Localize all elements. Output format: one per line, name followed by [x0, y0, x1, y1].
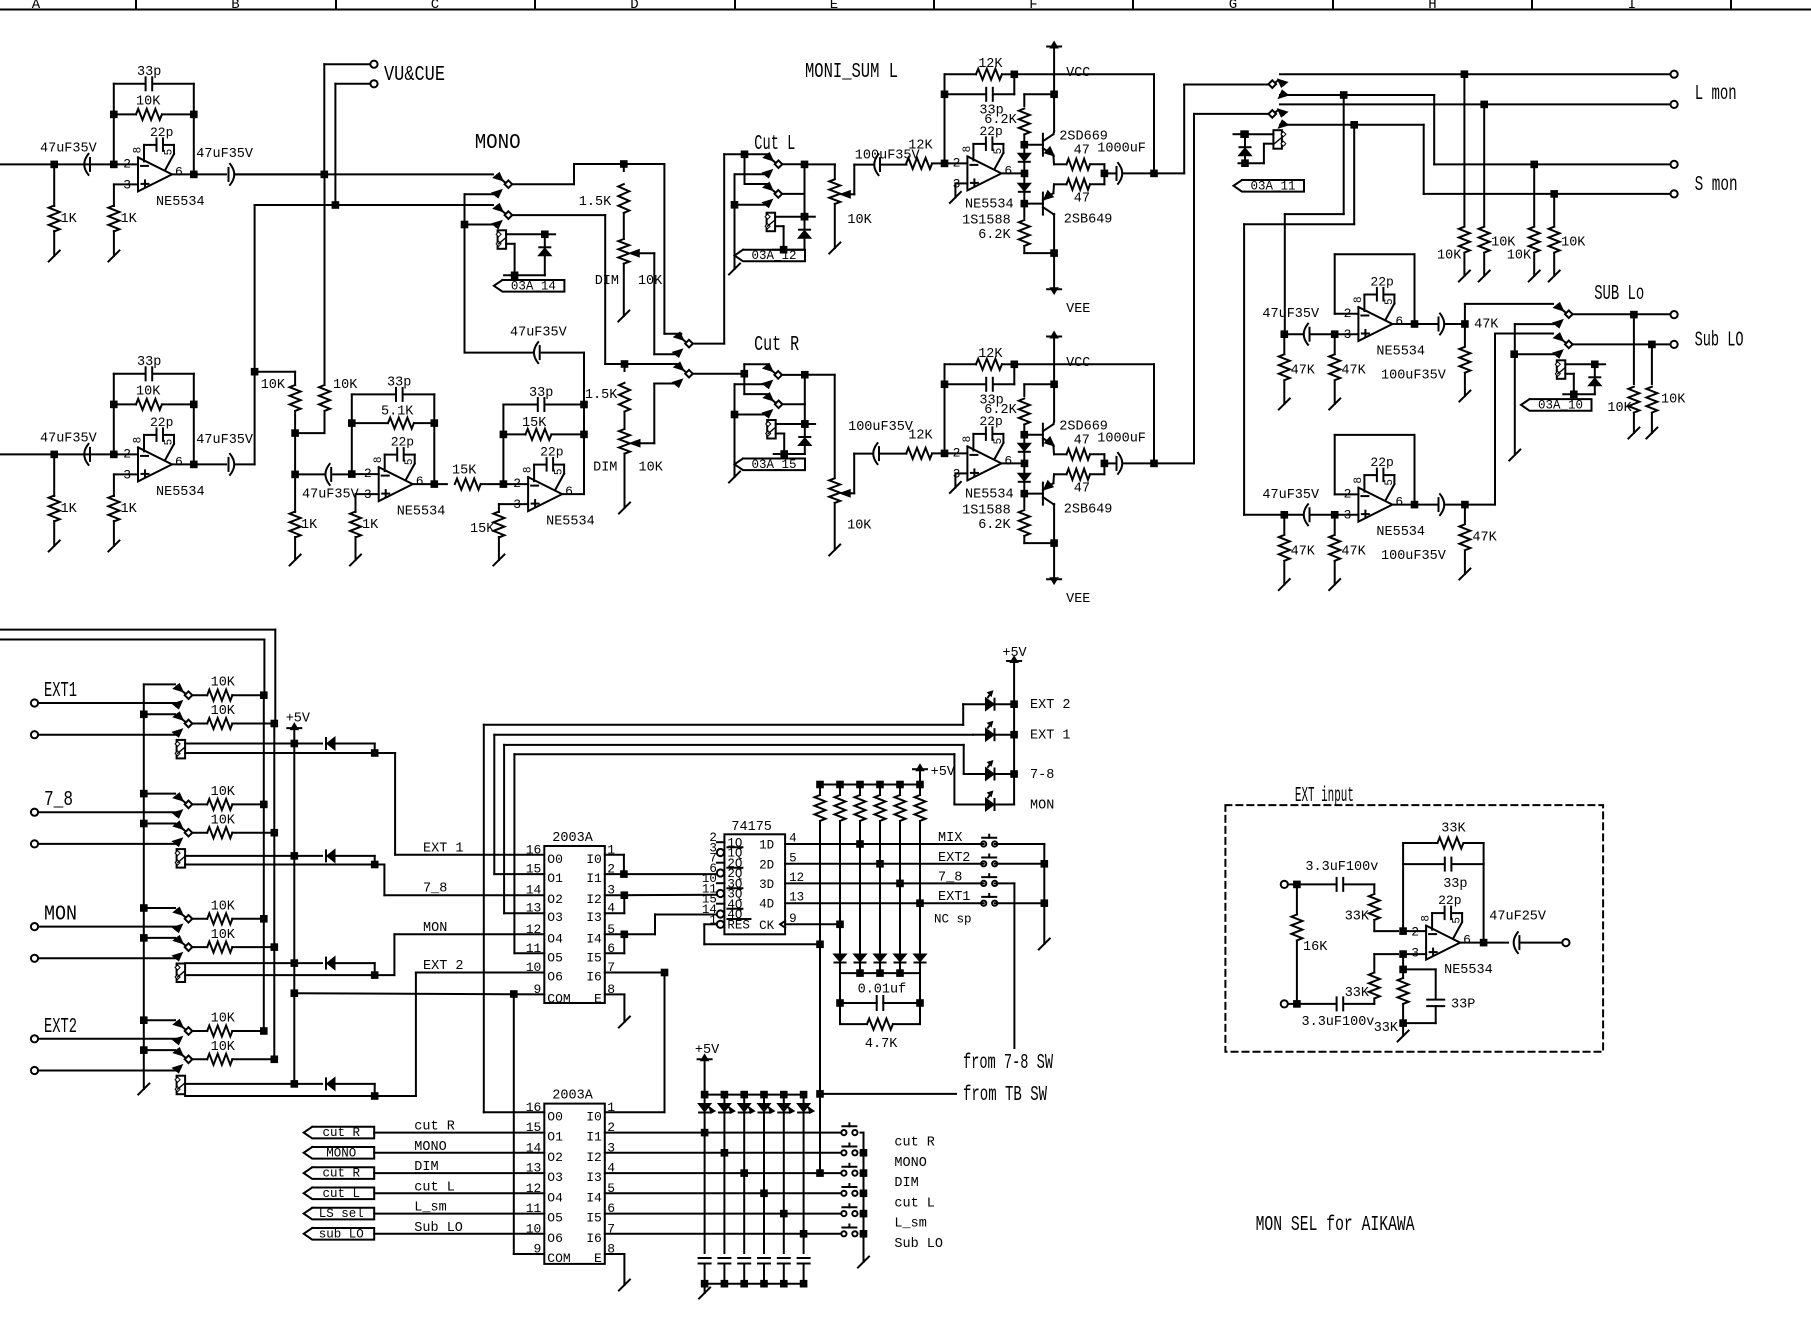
wire relay pin1 — [775, 216, 804, 218]
junction VCC — [1051, 382, 1057, 388]
wire +5V to EXT2 diode — [293, 993, 295, 1084]
wire feedback — [944, 74, 946, 163]
svg-text:0.01uf: 0.01uf — [858, 983, 907, 998]
wire 2D EXT2 — [785, 863, 984, 865]
svg-text:4.7K: 4.7K — [865, 1037, 898, 1052]
junction VEE — [1051, 540, 1057, 546]
junction bias top — [1022, 432, 1028, 438]
svg-text:cut L: cut L — [322, 1187, 360, 1201]
svg-text:10K: 10K — [1661, 392, 1686, 407]
wire feedback — [944, 364, 946, 453]
svg-text:O0: O0 — [547, 852, 563, 867]
svg-text:6: 6 — [565, 484, 573, 499]
junction — [1332, 512, 1338, 518]
junction VCC — [1051, 92, 1057, 98]
svg-text:MON: MON — [44, 904, 77, 927]
wire cut R outputs — [782, 374, 805, 376]
resistor 16K — [1296, 884, 1298, 914]
wire gnd bus stairs — [141, 905, 147, 911]
ground — [49, 541, 60, 552]
wire 3D 7-8 — [785, 882, 984, 884]
junction W1 tap — [1341, 92, 1347, 98]
diode flyback 7_8 — [294, 855, 322, 857]
op-amp SUB 2 NE5534 — [1358, 488, 1392, 522]
junction bias bottom — [1022, 491, 1028, 497]
junction rail — [781, 1092, 787, 1098]
svg-text:47K: 47K — [1341, 544, 1366, 559]
wire S mon t2 — [1280, 124, 1424, 126]
junction fb — [1412, 321, 1418, 327]
junction mono t2 — [462, 222, 468, 228]
LED — [723, 1095, 725, 1104]
wire relay rail — [1563, 393, 1595, 395]
svg-text:6.2K: 6.2K — [978, 518, 1011, 533]
junction — [1551, 191, 1557, 197]
transistor Q 2SD669 — [1042, 134, 1044, 156]
svg-text:RES: RES — [727, 919, 750, 933]
wire relay pin1 +5V — [185, 962, 294, 964]
svg-text:I: I — [1628, 0, 1636, 13]
wire S mon feed — [1194, 113, 1269, 115]
svg-text:10K: 10K — [1437, 249, 1462, 264]
wire cut R lower t1 — [743, 374, 745, 394]
svg-text:Sub LO: Sub LO — [1695, 330, 1744, 353]
diode 03A_10 — [1594, 364, 1596, 376]
switch MONO L — [494, 174, 502, 181]
junction — [722, 1281, 728, 1287]
op-amp EXT NE5534 — [1426, 926, 1460, 960]
wire matrix row — [605, 1132, 841, 1134]
wire to upper throw — [745, 153, 769, 155]
svg-text:L_sm: L_sm — [414, 1201, 446, 1216]
resistor 33K lower — [1373, 1000, 1375, 1004]
junction matrix — [801, 1231, 807, 1237]
junction — [622, 892, 628, 898]
clock wedge — [780, 921, 785, 928]
resistor 10K A — [290, 385, 301, 411]
resistor 15K op-amp5 pin3 — [493, 512, 504, 538]
wire flag — [374, 1192, 544, 1194]
resistor 1.5K R — [624, 364, 626, 371]
capacitor 47uF35V SUB 2 — [1284, 514, 1302, 516]
junction — [857, 970, 863, 976]
svg-text:6.2K: 6.2K — [984, 113, 1017, 128]
junction out — [1462, 502, 1468, 508]
wire summing node — [294, 433, 296, 474]
diode flyback EXT2 — [294, 1083, 322, 1085]
flag MONO — [304, 1147, 375, 1159]
relay 03A_10 — [1557, 360, 1566, 379]
potentiometer 10K cut R — [829, 478, 840, 503]
wire SUB2 out riser — [1465, 504, 1495, 506]
wire diode rail — [840, 972, 920, 974]
svg-text:2SB649: 2SB649 — [1064, 213, 1113, 228]
wire relay pin2 — [1565, 373, 1574, 375]
wire pin3 gnd — [955, 182, 967, 184]
pushbutton cut R — [841, 1130, 846, 1135]
svg-text:47uF35V: 47uF35V — [196, 433, 254, 448]
svg-text:O0: O0 — [547, 1109, 563, 1124]
ground — [1479, 271, 1490, 282]
wire op-amp5 feedback — [502, 405, 504, 485]
wire mono signal riser — [464, 225, 466, 353]
svg-text:10K: 10K — [211, 1040, 236, 1055]
junction rail — [741, 1092, 747, 1098]
svg-text:47K: 47K — [1291, 364, 1316, 379]
junction rail — [897, 782, 903, 788]
svg-text:12: 12 — [526, 922, 542, 937]
svg-text:1.5K: 1.5K — [585, 388, 618, 403]
resistor 1K summing — [294, 474, 296, 512]
power +5V EXT — [287, 727, 301, 729]
svg-text:3: 3 — [1344, 508, 1352, 523]
capacitor 100uF35V SUB 1 — [1438, 318, 1440, 331]
junction matrix — [741, 1170, 747, 1176]
switch Cut L upper — [764, 154, 772, 161]
svg-text:03A_12: 03A_12 — [751, 249, 796, 263]
wire relay rail — [773, 249, 804, 251]
svg-text:MON: MON — [1030, 799, 1054, 814]
ground — [1279, 579, 1290, 590]
wire Q2 emitter to 47R — [1052, 184, 1055, 193]
resistor 6.2K upper — [1019, 109, 1030, 135]
junction fb out — [1151, 171, 1157, 177]
svg-text:6: 6 — [416, 474, 424, 489]
terminal MON b — [31, 955, 38, 962]
wire mono L throw2 — [465, 193, 494, 195]
svg-text:47K: 47K — [1341, 364, 1366, 379]
svg-text:22p: 22p — [540, 445, 563, 460]
junction pin2 — [942, 161, 948, 167]
LED — [704, 1095, 706, 1104]
wire relay pin1 — [1565, 363, 1595, 365]
relay 03A_12 — [767, 213, 776, 232]
svg-text:Sub LO: Sub LO — [894, 1237, 943, 1252]
wire pot wiper — [850, 193, 855, 195]
svg-text:MONO: MONO — [894, 1156, 926, 1171]
svg-text:1K: 1K — [121, 212, 138, 227]
junction rail — [761, 1092, 767, 1098]
wire L mon feed — [1184, 84, 1268, 86]
wire cut L lower t1 — [744, 154, 746, 184]
svg-text:6: 6 — [175, 454, 183, 469]
diode 1S1588 upper — [1023, 145, 1025, 153]
switch Cut L lower — [764, 183, 772, 190]
resistor 1K pin3 — [108, 206, 119, 232]
svg-text:10K: 10K — [639, 461, 664, 476]
capacitor 100uF35V L — [874, 154, 878, 175]
svg-text:E: E — [594, 1251, 602, 1266]
wire flag — [374, 1172, 544, 1174]
pushbutton EXT2 — [981, 861, 986, 866]
ground — [619, 1280, 630, 1291]
wire opamp out — [1001, 462, 1024, 464]
svg-text:+5V: +5V — [695, 1043, 720, 1058]
ground — [1509, 450, 1520, 461]
svg-text:I2: I2 — [586, 1150, 602, 1165]
junction — [501, 432, 507, 438]
svg-text:DIM: DIM — [894, 1176, 918, 1191]
svg-text:47uF35V: 47uF35V — [40, 431, 98, 446]
junction — [801, 1281, 807, 1287]
svg-text:1K: 1K — [61, 502, 78, 517]
pushbutton DIM — [841, 1171, 846, 1176]
wire op-amp4 out — [413, 483, 447, 485]
svg-text:VU&CUE: VU&CUE — [384, 64, 445, 87]
wire gnd bus stairs — [141, 1017, 147, 1023]
LED 7-8 — [964, 773, 985, 775]
svg-text:100uF35V: 100uF35V — [1381, 549, 1447, 564]
wire I4-I5 link — [605, 933, 625, 935]
diode 03A_12 — [804, 217, 806, 229]
ground — [950, 482, 961, 493]
switch 7_8 2 — [174, 822, 182, 829]
ground — [493, 555, 504, 566]
svg-text:F: F — [1029, 0, 1037, 13]
junction bus L — [261, 1028, 267, 1034]
svg-text:O4: O4 — [547, 1190, 563, 1205]
wire relay pin1 — [776, 423, 805, 425]
terminal EXT1 b — [31, 731, 38, 738]
svg-text:VCC: VCC — [1066, 356, 1090, 371]
diode OR — [875, 955, 886, 962]
wire MONO R common out — [512, 214, 605, 216]
junction 03A_11 tap — [1241, 131, 1247, 137]
svg-text:SUB Lo: SUB Lo — [1594, 283, 1644, 306]
junction bus R — [272, 721, 278, 727]
wire I2 to 74175 3Q — [624, 894, 717, 897]
wire Q1 base — [1024, 144, 1043, 146]
svg-text:22p: 22p — [1370, 275, 1393, 290]
junction +5V — [292, 1081, 298, 1087]
svg-text:O6: O6 — [547, 970, 563, 985]
ground — [49, 251, 60, 262]
svg-text:10K: 10K — [638, 274, 663, 289]
wire relay pin2 — [185, 1095, 375, 1097]
svg-text:1D: 1D — [759, 839, 774, 853]
wire pull-up to row — [899, 821, 901, 883]
junction rail — [917, 782, 923, 788]
wire cut L feed — [724, 153, 744, 155]
svg-text:I3: I3 — [586, 910, 602, 925]
wire Q1 collector — [1052, 132, 1055, 135]
junction 33P — [1400, 967, 1406, 973]
wire feedback to output — [1014, 73, 1154, 75]
wire gnd bus stairs — [144, 683, 175, 685]
svg-text:47uF35V: 47uF35V — [1262, 488, 1320, 503]
junction — [741, 1281, 747, 1287]
wire button commons — [995, 843, 1045, 845]
wire cut L mute net — [735, 173, 766, 175]
junction bus R — [272, 1057, 278, 1063]
svg-text:I4: I4 — [586, 1190, 602, 1205]
wire flag — [374, 1152, 544, 1154]
svg-text:sub LO: sub LO — [319, 1227, 364, 1241]
svg-text:MON SEL for AIKAWA: MON SEL for AIKAWA — [1256, 1214, 1415, 1237]
svg-text:NE5534: NE5534 — [156, 195, 205, 210]
svg-text:MONO: MONO — [326, 1146, 356, 1160]
wire matrix row — [605, 1152, 841, 1154]
svg-text:cut R: cut R — [414, 1120, 455, 1135]
resistor 47K SUB1 b — [1334, 334, 1336, 354]
relay coil EXT1 — [177, 740, 186, 759]
flag 03A_12 — [735, 250, 806, 262]
svg-text:47K: 47K — [1472, 531, 1497, 546]
op-amp SUB 1 NE5534 — [1358, 307, 1392, 341]
svg-text:5: 5 — [164, 439, 176, 446]
junction TB DIM — [817, 1170, 823, 1176]
wire 2003A2 E to ground — [605, 1253, 625, 1255]
svg-text:cut R: cut R — [322, 1126, 360, 1140]
wire bank2 CK — [839, 821, 841, 924]
junction output — [191, 172, 197, 178]
junction bias bottom — [1022, 201, 1028, 207]
junction CK — [837, 922, 843, 928]
wire VU&CUE 1 — [323, 64, 325, 174]
svg-text:6: 6 — [1395, 314, 1403, 329]
ground — [1039, 939, 1050, 950]
flag 03A_15 — [735, 459, 806, 471]
junction cut L — [742, 152, 748, 158]
svg-text:10K: 10K — [211, 1012, 236, 1027]
svg-text:cut R: cut R — [322, 1167, 360, 1181]
svg-text:NE5534: NE5534 — [965, 488, 1014, 503]
ground — [138, 1084, 149, 1095]
wire pull-up to row — [919, 821, 921, 903]
switch 7_8 1 — [174, 794, 182, 801]
junction — [1462, 71, 1468, 77]
svg-text:22p: 22p — [150, 125, 173, 140]
wire to upper throw — [743, 364, 745, 373]
junction input 2 — [51, 452, 57, 458]
sheet border — [0, 9, 1811, 11]
svg-text:6.2K: 6.2K — [978, 228, 1011, 243]
flag 03A_11 — [1234, 180, 1305, 192]
wire relay rail — [504, 274, 545, 276]
svg-text:I5: I5 — [586, 1211, 602, 1226]
wire flag — [374, 1132, 544, 1134]
ground — [729, 472, 740, 483]
IC 2003A #2 — [544, 1104, 605, 1264]
wire VEE — [1053, 504, 1055, 579]
wire relay pin2 — [506, 243, 514, 245]
junction — [662, 970, 668, 976]
svg-text:47uF35V: 47uF35V — [196, 147, 254, 162]
wire loop3 to 2003A1 O3 — [503, 745, 505, 913]
svg-text:C: C — [431, 0, 439, 13]
terminal VU&CUE 1 — [370, 61, 377, 68]
svg-text:10K: 10K — [211, 928, 236, 943]
resistor 1K input bias — [53, 164, 55, 206]
svg-text:COM: COM — [547, 1251, 570, 1266]
wire MONI L out to right — [1154, 172, 1184, 174]
svg-text:NE5534: NE5534 — [1376, 525, 1425, 540]
svg-text:5: 5 — [993, 438, 1005, 445]
resistor 1K input bias — [53, 454, 55, 496]
junction bias top — [1022, 142, 1028, 148]
svg-text:47: 47 — [1074, 434, 1090, 449]
svg-text:I1: I1 — [586, 871, 602, 886]
junction — [292, 990, 298, 996]
wire relay pin2 — [185, 752, 375, 754]
wire Q2 collector — [1052, 213, 1055, 215]
svg-text:2: 2 — [123, 446, 131, 461]
wire cut L outputs — [782, 163, 804, 165]
resistor 1K pin3 — [108, 496, 119, 522]
power +5V LEDs — [1007, 660, 1021, 662]
svg-text:10K: 10K — [847, 213, 872, 228]
svg-text:47uF25V: 47uF25V — [1489, 910, 1547, 925]
junction — [877, 970, 883, 976]
svg-text:10K: 10K — [847, 519, 872, 534]
svg-text:I1: I1 — [586, 1130, 602, 1145]
wire relay pin1 +5V — [185, 855, 294, 857]
svg-text:B: B — [231, 0, 239, 13]
potentiometer 10K cut L — [829, 179, 840, 204]
LED MON — [954, 804, 984, 806]
wire EXT out — [1460, 942, 1508, 944]
svg-text:+5V: +5V — [286, 712, 311, 727]
capacitor 3.3uF100v upper — [1336, 878, 1338, 891]
junction relay — [1592, 362, 1598, 368]
wire DIM R wiper — [640, 442, 655, 444]
junction — [1481, 102, 1487, 108]
wire feedback loop — [1335, 313, 1359, 315]
resistor 10K EXT2 1 — [192, 1030, 207, 1032]
svg-text:NE5534: NE5534 — [397, 505, 446, 520]
svg-text:03A_11: 03A_11 — [1250, 179, 1295, 193]
LED — [803, 1095, 805, 1104]
svg-text:12K: 12K — [908, 139, 933, 154]
junction TB to DIM row — [817, 1091, 823, 1097]
wire 7-8 button from SW — [995, 882, 1015, 884]
capacitor 33p EXT — [1444, 858, 1446, 871]
svg-text:H: H — [1428, 0, 1436, 13]
terminal L mon 2 — [1671, 161, 1678, 168]
svg-text:10K: 10K — [1607, 401, 1632, 416]
resistor 47K SUB1 a — [1283, 334, 1285, 354]
junction rail — [702, 1092, 708, 1098]
svg-text:03A_10: 03A_10 — [1538, 399, 1583, 413]
junction — [1042, 861, 1048, 867]
svg-text:O5: O5 — [547, 1211, 563, 1226]
wire pull-up to row — [879, 821, 881, 864]
LED EXT 1 — [973, 734, 984, 736]
pushbutton MONO — [841, 1150, 846, 1155]
diode 1S1588 upper — [1023, 435, 1025, 443]
svg-text:DIM: DIM — [593, 461, 617, 476]
svg-text:1S1588: 1S1588 — [962, 214, 1011, 229]
diode 03A_15 — [804, 424, 806, 436]
wire 4D EXT1 — [785, 902, 984, 904]
svg-text:10K: 10K — [136, 385, 161, 400]
svg-text:6: 6 — [1004, 453, 1012, 468]
junction rail — [722, 1092, 728, 1098]
svg-text:8: 8 — [523, 466, 535, 473]
wire output — [172, 173, 226, 175]
resistor 47 lower — [1067, 469, 1091, 480]
svg-text:NE5534: NE5534 — [1444, 963, 1493, 978]
junction row — [917, 900, 923, 906]
svg-text:NE5534: NE5534 — [156, 485, 205, 500]
resistor 10K pulldown 4 — [1553, 194, 1555, 227]
junction — [861, 1170, 867, 1176]
wire I6 to 2003A2 I0 — [605, 972, 665, 974]
pushbutton L_sm — [841, 1211, 846, 1216]
svg-text:47K: 47K — [1474, 318, 1499, 333]
svg-text:EXT 2: EXT 2 — [423, 959, 464, 974]
svg-text:O4: O4 — [547, 931, 563, 946]
